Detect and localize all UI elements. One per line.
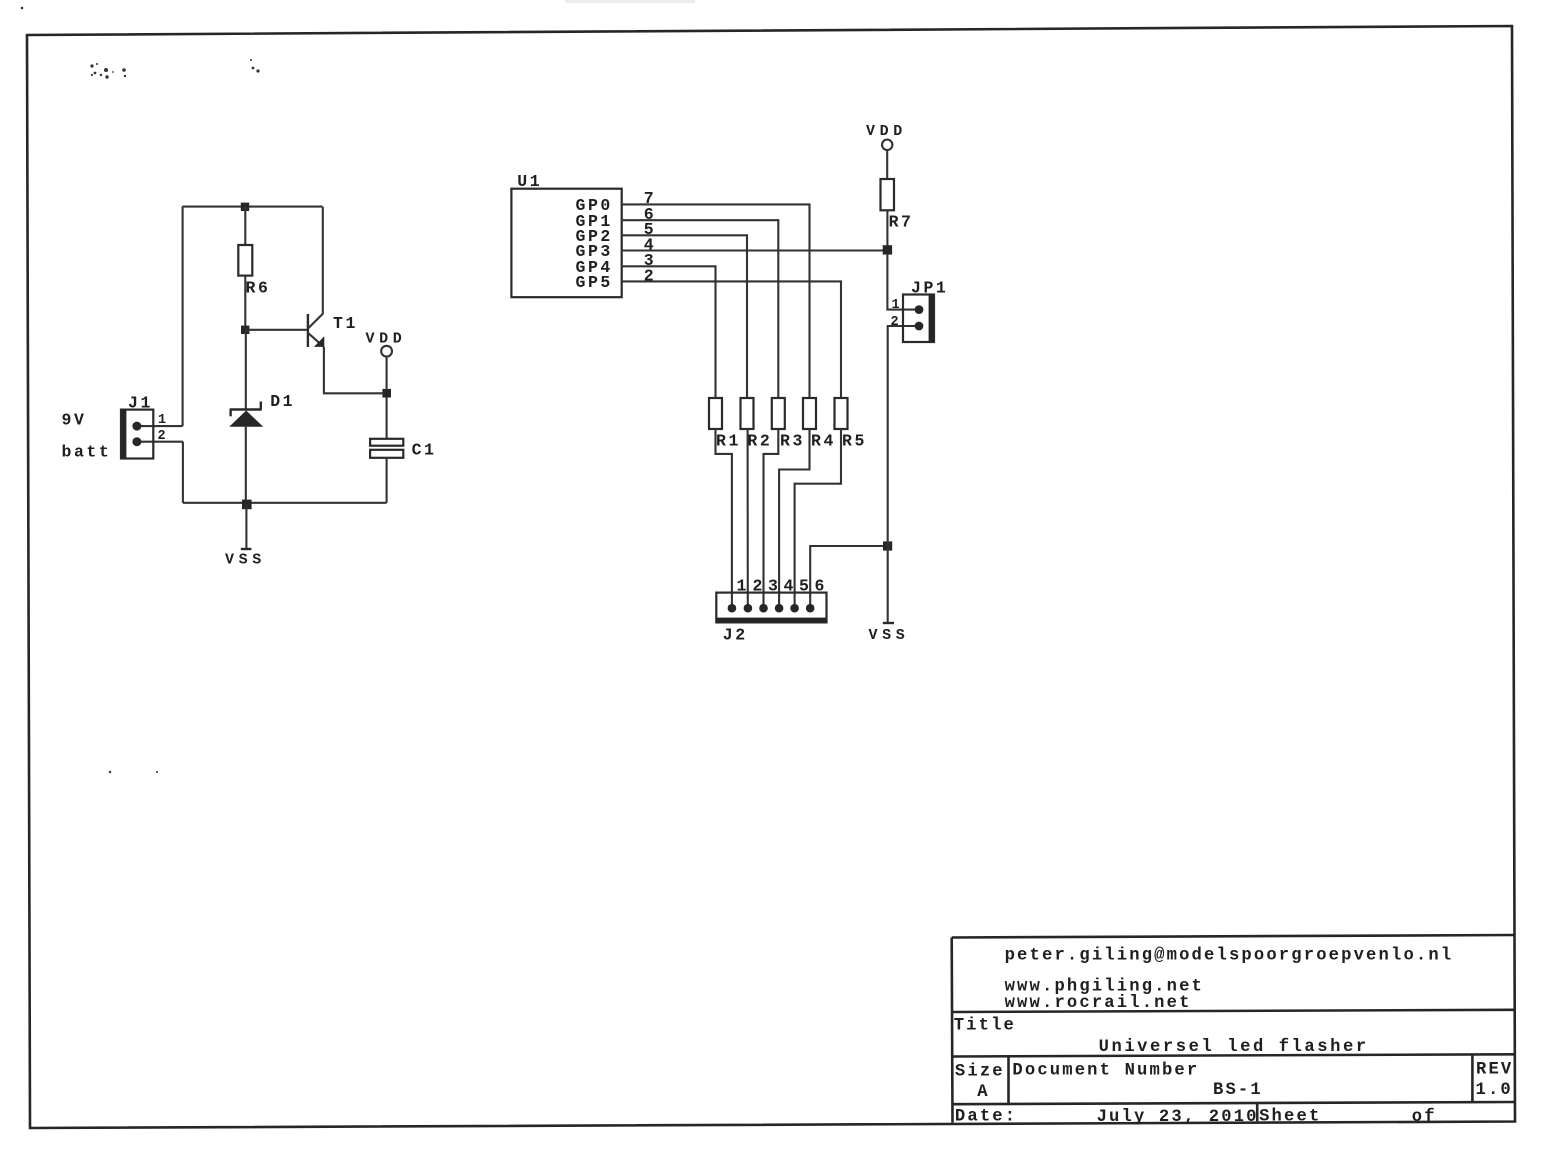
svg-text:VSS: VSS [869,627,910,644]
node: junction VSS rail [883,541,892,550]
svg-text:R5: R5 [842,432,867,451]
wire: R2 to J2 pin 2 [747,429,749,608]
svg-text:Sheet: Sheet [1259,1108,1321,1127]
svg-text:batt: batt [62,443,112,462]
wire: left vertical from top rail to J1 pin 1 [182,207,184,427]
svg-text:C1: C1 [412,441,437,460]
svg-text:2: 2 [644,266,656,285]
svg-text:U1: U1 [517,172,542,191]
wire: bottom rail of left loop [183,502,387,504]
svg-text:peter.giling@modelspoorgroepve: peter.giling@modelspoorgroepvenlo.nl [1005,947,1454,966]
svg-text:Title: Title [954,1017,1016,1036]
svg-text:R3: R3 [780,432,805,451]
wire: R1 to J2 pin 1 [716,429,732,608]
node: base junction [241,326,249,334]
wire: top rail of left loop [182,206,322,208]
wire: R3 to J2 pin 3 [764,429,779,608]
wire: JP1 pin 2 to VSS rail [888,326,919,624]
wire: R7 to junction [886,210,888,250]
transistor T1 [308,313,324,347]
svg-text:GP5: GP5 [576,273,613,292]
wire: GP2 pin 5 to R2 [622,235,747,398]
resistor R4 [803,398,816,429]
wire: R6 to base node [244,276,246,330]
connector JP1 [903,295,934,343]
wire: J1 pin 2 stub [137,441,183,443]
resistor R3 [772,398,785,429]
ground VSS (left) [241,548,252,550]
svg-text:T1: T1 [333,314,358,333]
wire: left vertical from J1 pin 2 to bottom rail [182,442,184,503]
wire: emitter down and right to VDD node [324,347,387,394]
svg-text:Universel led flasher: Universel led flasher [1099,1038,1369,1057]
connector J1 [121,410,153,459]
wire: R4 to J2 pin 4 [779,429,809,608]
wire: base wire to T1 [245,329,307,331]
svg-text:VDD: VDD [866,123,907,140]
svg-text:July 23, 2010: July 23, 2010 [1097,1108,1259,1127]
svg-text:R1: R1 [716,432,741,451]
node: junction GP3 net with R7 [883,245,892,254]
wire: GP1 pin 6 to R3 [622,220,779,398]
resistor R1 [709,398,722,429]
wire: VDD node down to C1 [386,398,388,439]
resistor R2 [741,398,754,429]
svg-text:9V: 9V [62,411,87,430]
wire: base node down to D1 [245,330,247,410]
resistor R5 [835,398,848,429]
svg-text:D1: D1 [270,392,295,411]
connector J2 [716,593,826,623]
wire: C1 down to bottom rail [386,458,388,503]
wire: D1 anode down to bottom rail [245,427,247,503]
node: junction at VDD drop [382,389,391,398]
svg-text:www.rocrail.net: www.rocrail.net [1005,994,1192,1013]
svg-text:R4: R4 [811,432,836,451]
resistor R6 [238,245,252,276]
svg-text:1: 1 [158,413,168,428]
svg-text:VSS: VSS [225,552,266,569]
node: junction on bottom rail at VSS [242,500,252,510]
svg-text:Document Number: Document Number [1012,1062,1199,1081]
IC U1 [511,189,621,298]
wire: R5 to J2 pin 5 [795,429,841,608]
power VDD (right) [866,123,907,179]
svg-text:1: 1 [737,577,749,596]
wire: junction down to JP1 pin 1 [887,255,919,310]
svg-text:R2: R2 [747,432,772,451]
svg-text:BS-1: BS-1 [1213,1081,1263,1100]
svg-text:5: 5 [799,577,811,596]
svg-text:1: 1 [892,298,902,313]
svg-text:VDD: VDD [366,331,407,348]
wire: collector vertical to top rail [322,207,324,314]
capacitor C1 [370,439,403,458]
svg-text:3: 3 [768,577,780,596]
wire: GP0 pin 7 to R4 [622,204,810,398]
svg-text:2: 2 [158,429,168,444]
svg-text:Size: Size [955,1063,1005,1082]
svg-text:JP1: JP1 [911,279,948,298]
power VDD (left) [366,331,407,389]
svg-text:6: 6 [815,577,827,596]
resistor R7 [881,179,895,210]
svg-text:Date:: Date: [955,1108,1017,1127]
wire: VSS rail to J2 pin 6 [810,546,887,608]
wire: GP4 pin 3 to R1 [622,266,716,398]
svg-text:J1: J1 [128,394,153,413]
wire: stub down to VSS [245,505,247,549]
svg-text:2: 2 [753,577,765,596]
svg-text:REV: REV [1476,1061,1513,1080]
svg-text:R7: R7 [889,213,914,232]
svg-text:1.0: 1.0 [1476,1081,1513,1100]
title block grid lines [952,935,1514,1123]
wire: J1 pin 1 stub [137,425,183,427]
wire: GP5 pin 2 to R5 [622,281,841,398]
wire: from top rail down to R6 [244,207,246,245]
svg-text:4: 4 [784,577,796,596]
node: junction on top rail [241,203,249,211]
ground VSS (right) [869,623,910,644]
diode D1 (zener) [229,402,263,427]
svg-text:A: A [977,1083,989,1102]
svg-text:of: of [1412,1108,1437,1127]
svg-text:J2: J2 [723,625,748,644]
wire: GP3 pin 4 to R7 net [622,249,888,251]
svg-text:R6: R6 [246,279,271,298]
svg-text:2: 2 [891,315,901,330]
